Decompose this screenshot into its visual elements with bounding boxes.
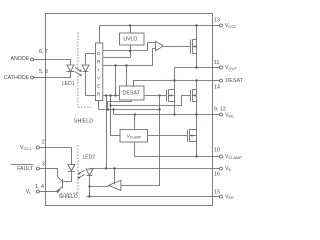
svg-text:FAULT: FAULT	[17, 166, 34, 172]
svg-text:D: D	[97, 51, 101, 57]
svg-text:VCC2: VCC2	[225, 23, 236, 29]
svg-text:E: E	[97, 83, 100, 89]
svg-text:11: 11	[214, 60, 220, 66]
svg-text:10: 10	[214, 148, 220, 154]
svg-text:R: R	[97, 92, 101, 98]
svg-text:16: 16	[214, 171, 220, 177]
svg-text:DESAT: DESAT	[225, 78, 243, 84]
svg-text:LED1: LED1	[62, 81, 75, 87]
svg-text:VCLAMP: VCLAMP	[225, 154, 242, 160]
svg-text:VOUT: VOUT	[225, 65, 237, 71]
svg-text:3: 3	[42, 161, 45, 167]
svg-text:VEE: VEE	[225, 112, 234, 118]
svg-text:VE: VE	[225, 166, 232, 172]
svg-text:13: 13	[214, 18, 220, 24]
svg-text:6, 7: 6, 7	[39, 49, 48, 55]
svg-text:1, 4: 1, 4	[35, 184, 44, 190]
svg-text:VCLAMP: VCLAMP	[127, 134, 142, 140]
svg-text:ANODE: ANODE	[10, 56, 29, 62]
svg-text:CATHODE: CATHODE	[4, 75, 30, 81]
svg-text:VCC1: VCC1	[20, 145, 31, 151]
svg-text:I: I	[98, 67, 99, 73]
svg-text:VEE: VEE	[225, 194, 234, 200]
svg-text:SHIELD: SHIELD	[74, 119, 93, 125]
svg-text:2: 2	[42, 139, 45, 145]
svg-text:LED2: LED2	[83, 155, 96, 161]
svg-text:DESAT: DESAT	[123, 91, 141, 97]
svg-text:14: 14	[214, 85, 220, 91]
svg-text:R: R	[97, 59, 101, 65]
svg-text:SHIELD: SHIELD	[59, 194, 78, 200]
svg-text:9, 12: 9, 12	[214, 106, 226, 112]
svg-text:V: V	[97, 75, 101, 81]
svg-text:VL: VL	[26, 189, 33, 195]
svg-text:15: 15	[214, 189, 220, 195]
svg-text:UVLO: UVLO	[123, 36, 137, 42]
svg-text:5, 8: 5, 8	[39, 69, 48, 75]
